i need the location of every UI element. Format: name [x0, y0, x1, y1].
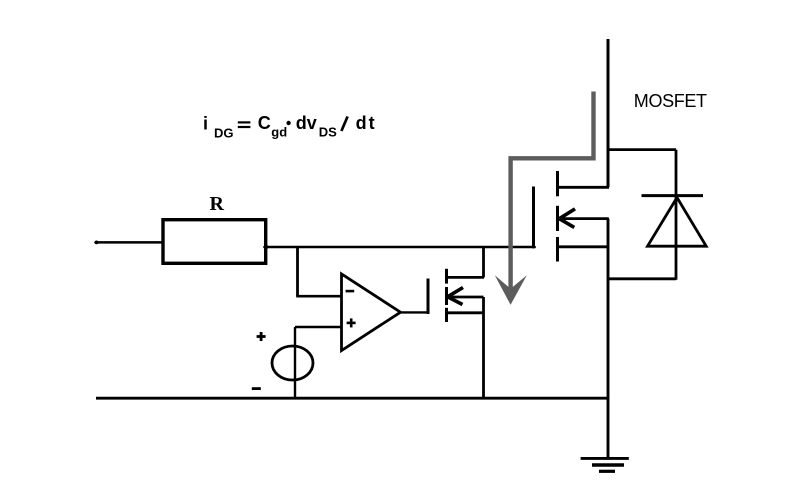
svg-text:gd: gd: [271, 125, 287, 140]
svg-text:dv: dv: [296, 113, 317, 133]
svg-text:MOSFET: MOSFET: [634, 91, 707, 111]
svg-text:DG: DG: [214, 125, 234, 140]
svg-text:C: C: [258, 113, 271, 133]
svg-text:dt: dt: [356, 113, 377, 133]
svg-text:i: i: [203, 113, 208, 133]
svg-text:R: R: [210, 193, 225, 215]
svg-text:DS: DS: [319, 125, 337, 140]
